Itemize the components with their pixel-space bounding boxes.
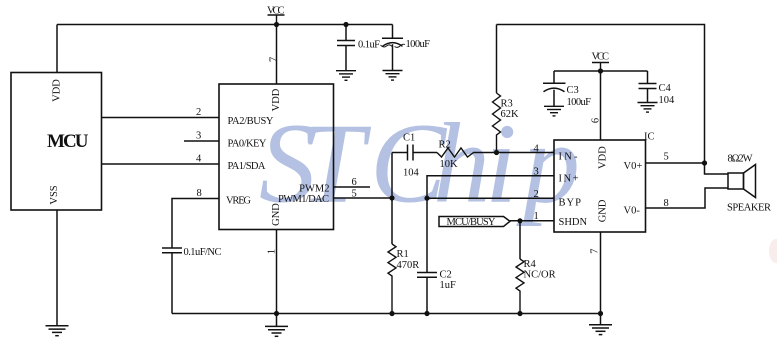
- svg-text:MCU/BUSY: MCU/BUSY: [447, 217, 496, 228]
- svg-text:VDD: VDD: [51, 79, 62, 102]
- node: SHDN / R4 junction: [517, 218, 522, 223]
- resistor R3: [493, 93, 501, 153]
- pin label IN+: [559, 173, 579, 184]
- pin label VDD (U1): [271, 88, 282, 111]
- svg-text:C4: C4: [659, 83, 672, 94]
- svg-text:PA0/KEY: PA0/KEY: [228, 138, 267, 149]
- svg-text:VDD: VDD: [598, 146, 609, 169]
- svg-text:V0-: V0-: [624, 205, 641, 216]
- svg-text:3: 3: [534, 167, 539, 178]
- amplifier IC box: [554, 140, 646, 232]
- wire: IN+ from node B: [427, 176, 554, 199]
- node: C2 on rail: [424, 311, 429, 316]
- pin label PA0/KEY: [228, 138, 267, 149]
- node A junction: [389, 195, 394, 200]
- ref label R2: [439, 139, 451, 150]
- svg-text:10K: 10K: [440, 159, 459, 170]
- wire: MCU to U1 pin 2: [102, 117, 220, 119]
- svg-text:VCC: VCC: [592, 52, 610, 63]
- wire: junction down to R4: [519, 221, 521, 259]
- capacitor C4: [639, 71, 657, 103]
- resistor R2: [437, 148, 474, 157]
- svg-text:7: 7: [268, 57, 279, 62]
- pin label V0-: [624, 205, 641, 216]
- wire: amp gnd stub: [600, 314, 602, 325]
- capacitor 0.1uF/NC (VREG): [162, 248, 182, 314]
- svg-text:62K: 62K: [501, 109, 520, 120]
- capacitor C2: [417, 273, 437, 314]
- svg-text:IN-: IN-: [559, 152, 579, 163]
- wire: node B down to C2: [426, 198, 428, 272]
- svg-text:1: 1: [266, 249, 277, 254]
- pin 3 label: [196, 131, 201, 142]
- svg-text:NC/OR: NC/OR: [524, 270, 556, 281]
- svg-text:C3: C3: [567, 85, 579, 96]
- svg-text:STChip: STChip: [259, 100, 580, 227]
- svg-text:6: 6: [590, 118, 601, 123]
- svg-text:2: 2: [196, 107, 201, 118]
- ground (MCU VSS): [46, 326, 69, 336]
- ref label C4: [659, 83, 672, 94]
- value label 0.1uF: [358, 40, 392, 51]
- svg-text:5: 5: [664, 152, 669, 163]
- wire: VREG pin 8 to cap: [172, 199, 219, 249]
- pin label GND (amp): [598, 199, 609, 222]
- pin label SHDN: [559, 217, 588, 228]
- wire: MCU VDD to rail: [56, 25, 58, 73]
- value label 104 (C1): [403, 167, 420, 178]
- wire: node A down to R1: [391, 198, 393, 244]
- wire: R2 to IC pin 4: [473, 152, 554, 154]
- resistor R4: [516, 259, 524, 314]
- svg-text:5: 5: [352, 188, 357, 199]
- pin 8 label: [197, 188, 202, 199]
- svg-text:100uF: 100uF: [567, 97, 592, 108]
- wire: MCU VSS to ground: [56, 210, 58, 326]
- pin label PWM2: [299, 183, 329, 194]
- net label MCU/BUSY tag: [439, 217, 510, 229]
- svg-text:VSS: VSS: [49, 185, 60, 204]
- svg-text:V0+: V0+: [624, 161, 643, 172]
- svg-text:VDD: VDD: [271, 88, 282, 111]
- label SPEAKER: [727, 203, 771, 214]
- ref label C2: [440, 270, 452, 281]
- svg-text:0.1uF: 0.1uF: [358, 40, 380, 51]
- wire: C1 to R2: [413, 152, 437, 154]
- svg-text:4: 4: [196, 154, 202, 165]
- svg-text:SPEAKER: SPEAKER: [727, 203, 771, 214]
- svg-text:IN+: IN+: [559, 173, 579, 184]
- wire: top rail (right): [497, 25, 705, 164]
- svg-text:IC: IC: [644, 131, 655, 142]
- pin label IN-: [559, 152, 579, 163]
- wire: BYP to node B: [427, 197, 554, 199]
- wire: MCU to U1 pin 4: [102, 163, 220, 165]
- node: R3 / IN- junction: [494, 150, 499, 155]
- ref label IC: [644, 131, 655, 142]
- pin 6 label IC: [590, 118, 601, 123]
- node: speaker junction: [702, 160, 707, 165]
- wire: stub to U1 pin 3: [184, 140, 219, 142]
- svg-text:8: 8: [664, 198, 669, 209]
- svg-text:100uF: 100uF: [406, 39, 431, 50]
- watermark STChip: [259, 100, 777, 264]
- svg-text:8Ω2W: 8Ω2W: [728, 153, 753, 164]
- ref label R4: [524, 259, 537, 270]
- svg-text:104: 104: [659, 95, 676, 106]
- node: R1 on rail: [389, 311, 394, 316]
- svg-text:PWM1/DAC: PWM1/DAC: [278, 194, 329, 205]
- pin label PA1/SDA: [228, 161, 266, 172]
- wire: U1 pin 5 PWM1/DAC to node A: [334, 197, 393, 199]
- pin 7 label amp: [589, 249, 600, 254]
- speaker LS1: [728, 165, 756, 198]
- IC U1 voice chip box: [219, 84, 334, 230]
- wire: R3 top lead: [496, 25, 498, 94]
- svg-text:8: 8: [197, 188, 202, 199]
- resistor R1: [388, 244, 396, 314]
- pin label VREG: [226, 196, 251, 207]
- svg-text:R4: R4: [524, 259, 537, 270]
- value label 1uF: [440, 280, 457, 291]
- pin label V0+: [624, 161, 643, 172]
- ref label R3: [501, 99, 513, 110]
- svg-text:SHDN: SHDN: [559, 217, 588, 228]
- wire: C3-C4 rail: [554, 70, 648, 72]
- pin 5 label U1: [352, 188, 357, 199]
- svg-text:2: 2: [534, 189, 539, 200]
- wire: U1 pin 6 PWM2 stub: [334, 186, 371, 188]
- svg-text:GND: GND: [271, 203, 282, 226]
- svg-text:PA2/BUSY: PA2/BUSY: [228, 116, 274, 127]
- wire: U1 GND pin 1 to rail: [276, 230, 278, 314]
- pin 7 label U1: [268, 57, 279, 62]
- pin 1 label U1: [266, 249, 277, 254]
- svg-text:104: 104: [403, 167, 420, 178]
- wire: rail stub to main ground: [276, 314, 278, 327]
- wire: C1 left lead: [392, 152, 408, 154]
- pin 5 label amp: [664, 152, 669, 163]
- pin label VDD (amp): [598, 146, 609, 169]
- value label 62K: [501, 109, 520, 120]
- power symbol VCC (left): [267, 6, 285, 25]
- pin 6 label U1: [352, 177, 357, 188]
- capacitor C1: [408, 145, 414, 161]
- ground (100uF cap): [383, 71, 403, 81]
- wire: amp GND pin 7 to rail: [600, 232, 602, 314]
- value label 104 (C4): [659, 95, 676, 106]
- wire: U1 pin 7 to VCC rail: [276, 25, 278, 85]
- pin 2 label: [196, 107, 201, 118]
- ground (U1 / rail): [265, 326, 288, 336]
- node: VCC junction at U1 pin 7: [274, 22, 279, 27]
- svg-text:MCU: MCU: [47, 131, 89, 152]
- pin label VDD (MCU): [51, 79, 62, 102]
- pin 4 label: [196, 154, 202, 165]
- value label 10K: [440, 159, 459, 170]
- svg-text:1uF: 1uF: [440, 280, 457, 291]
- pin 3 label amp: [534, 167, 539, 178]
- value label NC/OR: [524, 270, 556, 281]
- svg-text:3: 3: [196, 131, 201, 142]
- svg-text:BYP: BYP: [559, 198, 582, 209]
- svg-text:PA1/SDA: PA1/SDA: [228, 161, 266, 172]
- ref label C3: [567, 85, 579, 96]
- wire: node A up to C1 line: [391, 153, 393, 199]
- pin 8 label amp: [664, 198, 669, 209]
- value label 100uF (C3): [567, 97, 592, 108]
- capacitor C3 electrolytic: [543, 71, 566, 106]
- capacitor 0.1uF (top decoupling): [337, 25, 355, 71]
- wire: V0+ to speaker junction: [646, 162, 705, 164]
- svg-text:VREG: VREG: [226, 196, 251, 207]
- ground (0.1uF cap): [336, 71, 356, 81]
- ground (C3): [544, 106, 564, 116]
- pin label VSS (MCU): [49, 185, 60, 204]
- ground (C4): [638, 103, 658, 113]
- value label 0.1uF/NC: [184, 247, 222, 258]
- svg-text:GND: GND: [598, 199, 609, 222]
- svg-text:470R: 470R: [397, 260, 420, 271]
- pin 4 label amp: [534, 144, 540, 155]
- node: R4 on rail: [517, 311, 522, 316]
- node: U1 GND on rail: [274, 311, 279, 316]
- pin label GND (U1): [271, 203, 282, 226]
- svg-text:R1: R1: [397, 249, 409, 260]
- svg-text:0.1uF/NC: 0.1uF/NC: [184, 247, 222, 258]
- node: amp GND on rail: [598, 311, 603, 316]
- wire: V0- to speaker bottom lead: [646, 188, 729, 208]
- wire: junction to speaker top lead: [705, 163, 729, 174]
- capacitor 100uF (top electrolytic): [382, 25, 403, 71]
- pin 1 label amp: [534, 211, 539, 222]
- node: 0.1uF cap junction on rail: [343, 22, 348, 27]
- svg-text:R2: R2: [439, 139, 451, 150]
- svg-text:R3: R3: [501, 99, 513, 110]
- power symbol VCC (amp): [592, 52, 610, 72]
- value label 100uF: [395, 39, 431, 50]
- wire: IC pin 6 VDD: [600, 71, 602, 140]
- svg-text:C1: C1: [403, 132, 415, 143]
- MCU box: [11, 73, 102, 211]
- node: VCC junction (amp): [598, 68, 603, 73]
- svg-text:4: 4: [534, 144, 540, 155]
- svg-text:6: 6: [352, 177, 357, 188]
- pin label PA2/BUSY: [228, 116, 274, 127]
- node B junction: [424, 196, 429, 201]
- wire: bottom ground rail: [172, 313, 601, 315]
- pin label PWM1/DAC: [278, 194, 329, 205]
- svg-text:PWM2: PWM2: [299, 183, 329, 194]
- pin 2 label amp: [534, 189, 539, 200]
- wire: tag to SHDN pin 1: [510, 220, 554, 222]
- pin label BYP: [559, 198, 582, 209]
- value label 8ohm2W: [728, 153, 753, 164]
- wire: top VCC rail (left): [57, 24, 393, 26]
- ref label R1: [397, 249, 409, 260]
- ground (amp): [589, 325, 612, 335]
- svg-text:7: 7: [589, 249, 600, 254]
- svg-text:C2: C2: [440, 270, 452, 281]
- svg-text:1: 1: [534, 211, 539, 222]
- ref label C1: [403, 132, 415, 143]
- value label 470R: [397, 260, 420, 271]
